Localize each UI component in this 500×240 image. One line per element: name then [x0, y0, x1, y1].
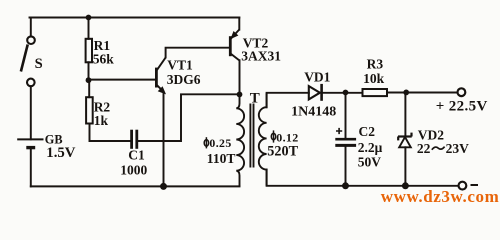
- wire secondary bottom to rail right: [267, 170, 459, 186]
- node VT1 emitter / bottom rail: [160, 183, 167, 190]
- svg-text:C2: C2: [359, 124, 376, 139]
- wire R1 top: [88, 18, 90, 39]
- wire battery column: [30, 86, 32, 139]
- svg-text:VT1: VT1: [167, 58, 193, 73]
- wire switch top to rail: [30, 18, 32, 37]
- label phi 0.12: [271, 130, 275, 142]
- svg-text:+ 22.5V: + 22.5V: [436, 99, 488, 115]
- output terminal minus: [459, 182, 467, 190]
- switch S: [21, 36, 35, 86]
- wire R1 bottom to node: [88, 62, 90, 80]
- svg-text:1k: 1k: [94, 113, 109, 128]
- label phi 0.25: [204, 137, 208, 148]
- battery GB: [17, 139, 43, 147]
- svg-text:1.5V: 1.5V: [46, 145, 75, 161]
- zener diode VD2: [398, 133, 412, 148]
- svg-text:R3: R3: [367, 56, 384, 71]
- svg-text:1N4148: 1N4148: [291, 105, 336, 120]
- wire node to R2: [88, 80, 90, 97]
- svg-text:22: 22: [417, 141, 431, 156]
- transformer T primary winding: [236, 94, 244, 186]
- node C2 bottom: [342, 182, 349, 189]
- svg-text:110T: 110T: [207, 151, 236, 166]
- transistor VT1: [156, 58, 165, 91]
- wire VD2 column: [404, 92, 406, 136]
- svg-text:1000: 1000: [120, 163, 147, 178]
- diode VD1: [309, 84, 322, 101]
- wire VT2 collector down to node: [239, 60, 241, 94]
- wire top rail: [30, 17, 240, 19]
- svg-text:0.25: 0.25: [209, 136, 231, 150]
- VT1 emitter arrow: [159, 87, 166, 94]
- wire R3 to plus terminal: [387, 92, 457, 94]
- capacitor C1: [132, 130, 137, 149]
- wire bottom rail left: [31, 185, 240, 187]
- wire R2 bottom to C1: [90, 124, 131, 141]
- svg-text:10k: 10k: [363, 71, 385, 86]
- wire VT1 emitter down to bottom rail: [163, 92, 165, 187]
- svg-text:T: T: [250, 90, 260, 106]
- svg-text:3AX31: 3AX31: [241, 48, 281, 63]
- node top rail / R1: [86, 15, 92, 21]
- node R1 / R2 / VT1 base: [86, 77, 92, 83]
- wire VD1 to R3: [323, 92, 363, 94]
- svg-text:56k: 56k: [93, 52, 115, 67]
- transformer core: [249, 104, 251, 168]
- svg-text:S: S: [35, 56, 43, 72]
- wire C1 right to feedback corner: [138, 94, 239, 141]
- wire VT2 emitter to top rail: [238, 18, 240, 30]
- svg-text:VD1: VD1: [304, 70, 330, 85]
- svg-text:www.dz3w.com: www.dz3w.com: [381, 187, 500, 204]
- node VT2 collector / primary: [237, 92, 243, 98]
- node VD2 bottom: [402, 182, 409, 189]
- output terminal plus: [458, 88, 466, 96]
- transformer T secondary winding: [259, 93, 267, 186]
- resistor R1: [86, 39, 92, 63]
- svg-text:2.2μ: 2.2μ: [358, 140, 383, 155]
- resistor R2: [86, 97, 93, 123]
- transistor VT2: [230, 30, 239, 61]
- resistor R3: [363, 89, 388, 96]
- wire VT1 collector to VT2 base: [166, 48, 229, 58]
- node VD1 / R3 / C2: [343, 90, 349, 96]
- node R3 / VD2 / output: [403, 90, 409, 96]
- svg-text:50V: 50V: [358, 155, 382, 170]
- svg-text:23V: 23V: [446, 141, 470, 156]
- minus sign: [471, 184, 479, 186]
- capacitor C2 electrolytic: [335, 128, 356, 145]
- wire secondary top to VD1: [267, 93, 309, 108]
- wire node to VT1 base: [89, 79, 156, 81]
- svg-text:C1: C1: [128, 148, 145, 163]
- wire C2 column: [345, 93, 347, 138]
- svg-text:0.12: 0.12: [276, 131, 298, 145]
- svg-text:3DG6: 3DG6: [167, 72, 201, 87]
- svg-text:520T: 520T: [267, 144, 298, 160]
- VT2 emitter arrow (PNP, points to base): [231, 32, 237, 39]
